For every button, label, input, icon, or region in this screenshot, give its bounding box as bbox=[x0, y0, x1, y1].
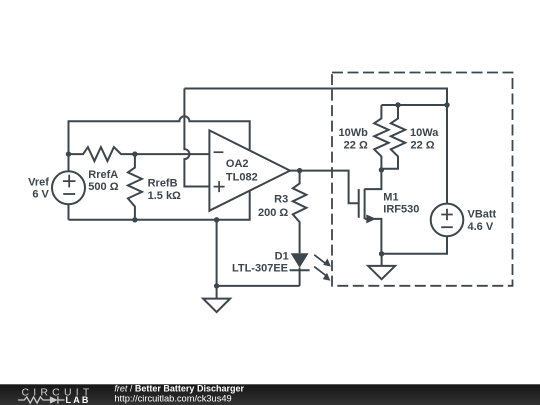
svg-text:TL082: TL082 bbox=[226, 171, 258, 183]
svg-text:Vref: Vref bbox=[28, 177, 49, 189]
svg-text:RrefA: RrefA bbox=[88, 169, 118, 181]
svg-text:LAB: LAB bbox=[66, 395, 91, 405]
svg-text:LTL-307EE: LTL-307EE bbox=[232, 262, 288, 274]
svg-text:1.5 kΩ: 1.5 kΩ bbox=[148, 190, 181, 202]
svg-text:500 Ω: 500 Ω bbox=[88, 181, 118, 193]
svg-text:22 Ω: 22 Ω bbox=[344, 139, 368, 151]
svg-text:10Wa: 10Wa bbox=[410, 127, 439, 139]
svg-text:4.6 V: 4.6 V bbox=[468, 221, 494, 233]
svg-text:R3: R3 bbox=[274, 194, 288, 206]
svg-text:http://circuitlab.com/ck3us49: http://circuitlab.com/ck3us49 bbox=[114, 393, 231, 403]
svg-text:VBatt: VBatt bbox=[468, 209, 497, 221]
svg-text:fret / Better Battery Discharg: fret / Better Battery Discharger bbox=[114, 384, 244, 394]
svg-text:RrefB: RrefB bbox=[148, 178, 178, 190]
svg-text:6 V: 6 V bbox=[32, 188, 49, 200]
svg-text:10Wb: 10Wb bbox=[338, 127, 368, 139]
svg-text:M1: M1 bbox=[383, 191, 398, 203]
svg-text:D1: D1 bbox=[275, 251, 289, 263]
svg-text:OA2: OA2 bbox=[226, 158, 249, 170]
svg-text:IRF530: IRF530 bbox=[383, 204, 419, 216]
svg-text:22 Ω: 22 Ω bbox=[411, 139, 435, 151]
svg-text:200 Ω: 200 Ω bbox=[258, 207, 288, 219]
